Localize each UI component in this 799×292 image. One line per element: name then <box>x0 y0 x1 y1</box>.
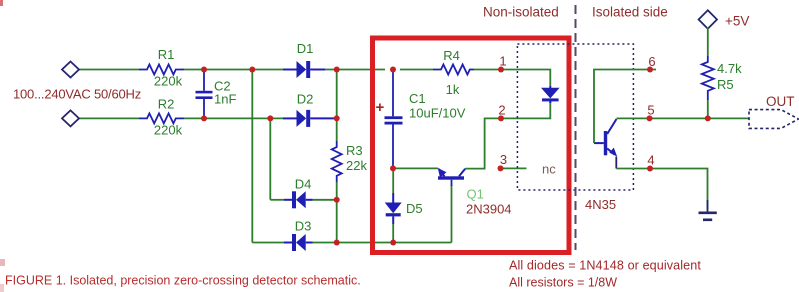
edge artifact left-bottom <box>0 259 5 266</box>
svg-text:R1: R1 <box>158 47 175 62</box>
svg-text:5: 5 <box>647 103 654 118</box>
resistor R2 <box>139 113 184 123</box>
node R5 bottom <box>705 115 711 121</box>
svg-text:R3: R3 <box>346 143 363 158</box>
wire: top rail row1 from connector J1 to D1 <box>79 70 550 87</box>
opto LED (inside U1) <box>541 86 560 103</box>
wire: R5 to pin5 rail <box>707 100 709 118</box>
connector J2 (AC input bottom) <box>62 110 79 126</box>
svg-text:R4: R4 <box>443 48 460 63</box>
svg-text:22k: 22k <box>346 158 367 173</box>
node D4 rail <box>334 197 340 203</box>
svg-text:C1: C1 <box>409 91 426 106</box>
diode D3 <box>284 234 313 251</box>
svg-text:100...240VAC 50/60Hz: 100...240VAC 50/60Hz <box>13 87 141 102</box>
wire: pin3 stub (nc) <box>501 167 527 169</box>
capacitor C2 <box>196 70 213 119</box>
resistor R5 <box>702 56 714 100</box>
svg-text:All diodes = 1N4148 or equival: All diodes = 1N4148 or equivalent <box>509 259 701 273</box>
wire: pin2 net from LED cathode to Q1 collector <box>465 101 550 169</box>
wire: D4 rail y=199.8 <box>270 199 336 201</box>
wire: pin4 emitter net to ground <box>616 169 707 210</box>
node D3 rail <box>334 240 340 246</box>
node C2 bottom <box>201 115 207 121</box>
svg-text:+: + <box>376 99 385 116</box>
diode D2 <box>283 110 337 127</box>
svg-text:Isolated side: Isolated side <box>592 5 668 20</box>
wire: vertical net at x=252.3 (row1 to bottom rail) <box>251 70 253 243</box>
wire: row2 rail from connector J2 to D2 <box>79 117 283 119</box>
svg-text:2: 2 <box>498 103 505 118</box>
svg-text:4.7k: 4.7k <box>717 61 742 76</box>
diode D5 <box>385 168 402 242</box>
node C1 top <box>390 67 396 73</box>
resistor R3 <box>332 141 342 182</box>
isolation boundary dashed line <box>575 5 577 250</box>
svg-text:D5: D5 <box>406 201 423 216</box>
opto phototransistor (inside U1) <box>594 119 617 169</box>
wire: +5V to R5 <box>707 28 709 57</box>
wire: vertical net at x=336.7 with R3 inline <box>336 70 338 243</box>
optocoupler U1 4N35 dotted box <box>517 44 633 190</box>
node row2/x270 <box>267 115 273 121</box>
svg-text:D3: D3 <box>295 219 312 234</box>
connector J1 (AC input top) <box>62 62 79 78</box>
svg-text:D1: D1 <box>297 41 314 56</box>
node row1/x252 <box>249 67 255 73</box>
svg-text:Q1: Q1 <box>467 187 484 202</box>
node pin6 <box>647 67 653 73</box>
wire: pin6 base net <box>594 70 656 144</box>
svg-text:OUT: OUT <box>766 94 795 109</box>
node pin4 <box>647 166 653 172</box>
node C1 bottom <box>390 165 396 171</box>
node D2 cathode <box>334 115 340 121</box>
wire: vertical net at x=270.3 (row2 to D4 rail) <box>269 118 271 199</box>
svg-text:R2: R2 <box>158 97 175 112</box>
svg-text:All resistors = 1/8W: All resistors = 1/8W <box>509 276 617 290</box>
svg-text:Non-isolated: Non-isolated <box>483 5 559 20</box>
diode D4 <box>284 191 313 208</box>
svg-text:220k: 220k <box>154 74 183 89</box>
svg-text:D4: D4 <box>295 177 312 192</box>
svg-text:2N3904: 2N3904 <box>466 202 512 217</box>
resistor R4 <box>433 65 474 75</box>
svg-text:1: 1 <box>499 54 506 69</box>
wire: bottom rail y=242.5 <box>252 185 451 243</box>
red highlight box <box>373 38 570 253</box>
node D5 cathode <box>390 240 396 246</box>
diode D1 <box>283 61 325 78</box>
svg-text:4: 4 <box>647 153 654 168</box>
svg-text:1k: 1k <box>446 82 460 97</box>
svg-text:220k: 220k <box>154 123 183 138</box>
svg-text:FIGURE 1. Isolated, precision: FIGURE 1. Isolated, precision zero-cross… <box>5 274 361 288</box>
node C2 top <box>201 67 207 73</box>
wire: emitter net row3 from C1 to Q1 <box>393 167 438 169</box>
connector +5V <box>699 10 717 28</box>
node D1 cathode <box>334 67 340 73</box>
svg-text:1nF: 1nF <box>214 92 236 107</box>
svg-text:D2: D2 <box>297 92 314 107</box>
svg-text:nc: nc <box>542 162 556 177</box>
ground symbol <box>699 200 717 220</box>
node pin5 <box>647 115 653 121</box>
wire: pin5 collector net to R5/OUT <box>617 117 750 119</box>
capacitor C1 (electrolytic) <box>385 70 403 169</box>
node pin3 <box>498 165 504 171</box>
svg-text:10uF/10V: 10uF/10V <box>409 106 466 121</box>
svg-text:3: 3 <box>500 152 507 167</box>
svg-text:4N35: 4N35 <box>585 197 616 212</box>
svg-text:R5: R5 <box>717 77 734 92</box>
resistor R1 <box>139 65 184 75</box>
transistor Q1 (2N3904) <box>438 168 465 186</box>
edge artifact top-left <box>0 0 3 6</box>
svg-text:+5V: +5V <box>725 14 749 29</box>
node pin2 <box>498 115 504 121</box>
node pin1 <box>498 67 504 73</box>
connector OUT <box>749 110 799 129</box>
